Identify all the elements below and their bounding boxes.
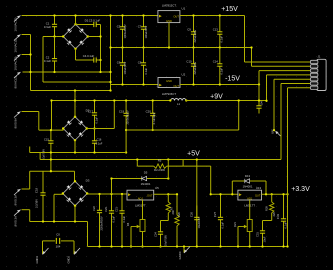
node: [125, 151, 127, 153]
r8 to c24: [161, 220, 169, 222]
label D5: [141, 171, 151, 187]
label R20: [265, 206, 277, 217]
gnd bus: [111, 47, 252, 49]
node: [74, 151, 76, 153]
svg-text:LM317T: LM317T: [135, 203, 146, 207]
regulator U4: [127, 190, 154, 200]
bridge rectifier D1: [62, 23, 89, 50]
label C7: [138, 25, 148, 39]
node: [192, 14, 194, 16]
svg-text:R2.2/3W: R2.2/3W: [154, 168, 165, 172]
svg-text:OUT: OUT: [173, 84, 179, 88]
svg-text:10uF/16V: 10uF/16V: [197, 217, 201, 229]
wire: [74, 206, 76, 222]
node: [210, 193, 212, 195]
wire: [30, 170, 75, 172]
svg-text:10uF/16V: 10uF/16V: [164, 235, 168, 247]
label C21: [115, 207, 126, 223]
svg-text:U5: U5: [155, 186, 159, 190]
node: [110, 177, 112, 179]
node: [219, 193, 221, 195]
svg-text:C17: C17: [88, 110, 94, 114]
svg-text:0.1uF: 0.1uF: [219, 35, 223, 42]
node: [121, 46, 123, 48]
svg-text:104: 104: [260, 101, 264, 106]
label C5: [117, 24, 127, 38]
node: [237, 245, 239, 247]
node: [109, 46, 111, 48]
wire: [74, 171, 76, 181]
node: [282, 193, 284, 195]
svg-text:0.1uF: 0.1uF: [122, 215, 126, 222]
wire: [42, 37, 44, 83]
label U2 name: [162, 92, 177, 96]
capacitor C14: [217, 48, 222, 85]
svg-text:C16: C16: [97, 138, 102, 142]
wire: [43, 36, 63, 38]
svg-text:100uF/35V: 100uF/35V: [144, 26, 148, 39]
svg-text:GND1: GND1: [35, 256, 39, 264]
regulator U1: [158, 11, 180, 23]
label C28: [213, 211, 225, 228]
label C15: [43, 138, 50, 160]
capacitor C24: [158, 221, 163, 247]
capacitor C17: [92, 101, 97, 129]
svg-text:OUT: OUT: [147, 193, 153, 197]
node: [258, 83, 260, 85]
label C17: [88, 110, 99, 124]
svg-text:R20: R20: [265, 206, 269, 211]
svg-text:R7: R7: [170, 206, 174, 210]
node: [93, 127, 95, 129]
terminal 9V B: [14, 210, 21, 216]
svg-text:220uF/25V: 220uF/25V: [193, 62, 197, 75]
node: [50, 158, 52, 160]
capacitor C23: [109, 194, 114, 247]
svg-text:10uF: 10uF: [263, 236, 267, 242]
wire mini: [43, 241, 75, 254]
node: [109, 14, 111, 16]
svg-text:16V/AC(3): 16V/AC(3): [14, 56, 18, 70]
svg-text:2200uF/16V: 2200uF/16V: [100, 216, 104, 230]
-15V rail: [180, 84, 259, 86]
+5V drop: [167, 160, 169, 179]
node: [219, 245, 221, 247]
pot R6: [131, 220, 145, 247]
bridge rectifier D3: [62, 180, 89, 207]
svg-text:+3.3V: +3.3V: [291, 186, 310, 193]
node: [125, 99, 127, 101]
node: [271, 193, 273, 195]
wire: [43, 81, 111, 83]
svg-text:LM7815CT: LM7815CT: [162, 3, 177, 7]
svg-text:C3 0.1uF: C3 0.1uF: [89, 19, 101, 23]
wire: [74, 91, 76, 117]
svg-text:C15: C15: [44, 138, 50, 142]
inductor L1: [169, 99, 187, 102]
capacitor C4: [76, 57, 101, 62]
node: [99, 71, 101, 73]
svg-text:0.1uF: 0.1uF: [44, 25, 51, 29]
node: [152, 99, 154, 101]
node: [167, 193, 169, 195]
svg-text:0.1uF: 0.1uF: [144, 67, 148, 74]
node: [121, 245, 123, 247]
capacitor C0: [56, 238, 59, 244]
node: [231, 193, 233, 195]
node: [98, 245, 100, 247]
svg-text:LM7915CT: LM7915CT: [162, 92, 177, 96]
label C33: [276, 213, 288, 228]
label 16VAC B: [14, 56, 18, 70]
svg-text:100uF/35V: 100uF/35V: [123, 62, 127, 75]
R20 resistor: [270, 194, 274, 220]
node: [142, 14, 144, 16]
svg-text:2.2/16V: 2.2/16V: [35, 199, 39, 208]
5v line B: [40, 153, 281, 160]
label out B: [67, 256, 71, 264]
svg-text:C20: C20: [146, 110, 152, 114]
capacitor C18: [40, 171, 45, 221]
node: [142, 46, 144, 48]
node: [142, 83, 144, 85]
wire pin5: [274, 79, 310, 130]
svg-text:ADJ: ADJ: [247, 196, 253, 200]
wire: [87, 222, 89, 247]
svg-text:9V/0.8A: 9V/0.8A: [14, 118, 18, 129]
node: [125, 129, 127, 131]
wire: [88, 36, 101, 38]
capacitor C2: [52, 37, 57, 73]
svg-text:L1: L1: [177, 102, 181, 106]
wire: [196, 160, 198, 247]
svg-text:0.1uF: 0.1uF: [221, 221, 225, 228]
wire: [110, 16, 112, 91]
adj loop U6: [263, 220, 272, 222]
label U6 pins: [239, 193, 261, 200]
capacitor C20: [150, 101, 155, 131]
wire: [22, 54, 31, 56]
svg-text:220: 220: [177, 212, 181, 217]
label U6 name: [244, 204, 255, 208]
label C8: [138, 61, 148, 75]
node: [50, 170, 52, 172]
wire adj: [142, 200, 144, 220]
node: [167, 177, 169, 179]
svg-text:+15V: +15V: [221, 6, 238, 13]
regulator U2: [158, 78, 180, 88]
label out A: [35, 256, 39, 264]
node: [50, 99, 52, 101]
capacitor C33: [281, 194, 286, 246]
diode D5: [112, 176, 169, 194]
label R21: [233, 222, 237, 227]
node: [121, 193, 123, 195]
label C19: [119, 110, 130, 125]
wire: [100, 25, 102, 73]
node: [192, 83, 194, 85]
svg-text:9V/0.3A: 9V/0.3A: [14, 195, 18, 206]
svg-text:C5: C5: [117, 25, 121, 29]
node: [265, 193, 267, 195]
svg-text:3V8: 3V8: [271, 129, 275, 134]
node: [167, 158, 169, 160]
svg-text:GND: GND: [166, 19, 172, 23]
label R6: [126, 222, 130, 226]
node: [273, 129, 275, 131]
node: [93, 151, 95, 153]
svg-text:C21: C21: [115, 207, 119, 212]
node: [121, 83, 123, 85]
label R5: [154, 159, 165, 173]
node: [219, 83, 221, 85]
svg-text:0.1uF: 0.1uF: [284, 221, 288, 228]
svg-text:9V/AC(2): 9V/AC(2): [14, 76, 18, 88]
9v return line: [126, 101, 239, 131]
diode D13: [232, 179, 266, 195]
wire pin3: [259, 71, 310, 85]
capacitor C13: [217, 16, 222, 48]
svg-text:C23: C23: [104, 207, 108, 212]
node: [53, 220, 55, 222]
svg-text:16V/AC(1): 16V/AC(1): [14, 38, 18, 52]
wire: [22, 210, 88, 222]
label U6 ref: [256, 186, 262, 190]
node: [42, 220, 44, 222]
label pin5 port: [271, 129, 275, 134]
bottom gnd bus: [88, 246, 288, 248]
capacitor C21: [119, 194, 124, 247]
svg-text:10uF/16V: 10uF/16V: [43, 149, 46, 160]
node: [98, 193, 100, 195]
u6 in line: [211, 193, 238, 195]
wire: [51, 101, 53, 131]
regulator U6: [238, 190, 262, 200]
svg-text:0.1uF: 0.1uF: [219, 67, 223, 74]
svg-text:C26: C26: [189, 211, 193, 217]
svg-text:1N4001: 1N4001: [243, 185, 253, 189]
svg-text:0.1uF: 0.1uF: [96, 142, 103, 146]
node: [74, 99, 76, 101]
node: [29, 71, 31, 73]
svg-text:GND: GND: [166, 79, 172, 83]
wire adj U6: [249, 200, 251, 220]
node: [109, 89, 111, 91]
wire U2 in: [111, 84, 159, 86]
node: [152, 129, 154, 131]
svg-text:R21: R21: [233, 222, 237, 227]
node: [109, 71, 111, 73]
node: [196, 245, 198, 247]
connector J1: [310, 59, 326, 90]
node: [99, 35, 101, 37]
label C27: [189, 211, 201, 228]
svg-text:0.1uF: 0.1uF: [44, 59, 51, 63]
capacitor C1: [52, 16, 57, 37]
label C24: [154, 232, 168, 247]
node: [219, 14, 221, 16]
bridge rectifier D2: [62, 116, 88, 142]
R7 resistor: [175, 194, 179, 246]
svg-text:C27: C27: [213, 211, 217, 217]
svg-text:C0: C0: [56, 233, 60, 237]
label C23: [104, 207, 115, 223]
label U4 pins: [128, 193, 153, 200]
label C9: [187, 28, 197, 43]
label U1 pins: [159, 15, 179, 23]
wire: [22, 35, 31, 91]
node: [50, 129, 52, 131]
svg-text:C33: C33: [276, 213, 280, 219]
label C10: [186, 60, 197, 75]
terminal 9V AC B: [14, 112, 21, 118]
+15V rail: [180, 15, 245, 17]
terminal 9V AC A: [14, 72, 21, 78]
svg-text:C10: C10: [186, 60, 192, 64]
capacitor C7: [141, 16, 146, 48]
node: [219, 46, 221, 48]
label gnd port: [178, 251, 182, 259]
node: [250, 46, 252, 48]
svg-text:1000uF/35V: 1000uF/35V: [123, 24, 127, 38]
svg-text:+9V: +9V: [210, 93, 223, 100]
node: [53, 71, 55, 73]
node: [53, 35, 55, 37]
capacitor C19: [124, 101, 129, 153]
wire T4: [23, 71, 111, 73]
node: [136, 158, 138, 160]
svg-text:U1: U1: [182, 7, 186, 11]
out line: [154, 193, 177, 195]
svg-text:-15V: -15V: [225, 76, 240, 83]
node: [159, 245, 161, 247]
svg-text:C6: C6: [117, 61, 121, 65]
wire pin6: [281, 84, 310, 160]
gnd port: [184, 247, 190, 254]
pot R21: [238, 220, 252, 247]
in line: [87, 193, 127, 195]
svg-text:220uF/25V: 220uF/25V: [193, 30, 197, 43]
wire: [54, 194, 63, 221]
label C2: [44, 56, 51, 64]
svg-text:C8: C8: [138, 61, 142, 65]
svg-text:0.1uF: 0.1uF: [111, 215, 115, 222]
wire: [22, 15, 158, 17]
label D1: [85, 19, 89, 23]
label U1 name: [162, 3, 177, 7]
svg-text:OUT: OUT: [173, 15, 179, 19]
label C13: [213, 28, 224, 43]
svg-text:R5: R5: [158, 159, 162, 163]
label C4: [83, 54, 95, 58]
node: [109, 81, 111, 83]
svg-text:C31: C31: [256, 232, 260, 237]
label C1: [44, 22, 51, 30]
svg-text:104: 104: [56, 245, 61, 249]
node: [74, 14, 76, 16]
terminal out A: [43, 248, 49, 255]
node: [196, 158, 198, 160]
wire: [22, 112, 64, 131]
label U2 pins: [159, 79, 179, 88]
svg-text:C24: C24: [154, 232, 158, 237]
label 16VAC A: [14, 17, 18, 31]
svg-text:D13: D13: [245, 174, 251, 178]
node: [74, 89, 76, 91]
label C22: [92, 206, 104, 231]
label C20: [146, 110, 157, 125]
R5 resistor: [137, 160, 183, 169]
svg-text:C22: C22: [92, 206, 96, 211]
terminal 16V AC B: [14, 55, 21, 61]
svg-text:C18: C18: [35, 187, 39, 193]
node: [99, 59, 101, 61]
node: [29, 53, 31, 55]
node: [265, 100, 267, 102]
node: [121, 14, 123, 16]
svg-text:0.1uF: 0.1uF: [95, 116, 99, 123]
node: [130, 245, 132, 247]
label C18m: [96, 138, 103, 146]
mid gnd bus: [30, 140, 126, 152]
svg-text:C7: C7: [138, 25, 142, 29]
label 9VAC B: [14, 118, 18, 129]
capacitor C22: [97, 194, 102, 247]
node: [110, 193, 112, 195]
wire 9V line: [52, 100, 172, 102]
svg-text:J1: J1: [318, 55, 321, 59]
node: [286, 193, 288, 195]
label U4 ref: [155, 186, 159, 190]
out line 3v3: [262, 193, 288, 195]
node: [50, 151, 52, 153]
capacitor C18m: [92, 129, 97, 153]
svg-text:C19: C19: [119, 110, 125, 114]
node: [113, 99, 115, 101]
capacitor C5: [120, 16, 125, 48]
label R8: [171, 210, 175, 215]
wire: [22, 171, 30, 189]
svg-text:2200uF/16V: 2200uF/16V: [126, 110, 130, 124]
node: [176, 193, 178, 195]
wire pin4: [267, 75, 311, 101]
capacitor C9: [191, 16, 196, 48]
svg-text:D5: D5: [144, 171, 148, 175]
label Cb: [260, 101, 264, 106]
label C31: [256, 232, 267, 243]
label U2 ref: [182, 73, 186, 77]
label D2: [86, 109, 90, 113]
svg-text:U13: U13: [256, 186, 262, 190]
label L1: [177, 102, 181, 106]
svg-text:+5V: +5V: [187, 151, 200, 158]
label C3: [89, 19, 101, 23]
svg-text:U2: U2: [182, 73, 186, 77]
label +5V: [187, 151, 200, 158]
capacitor C27: [194, 206, 199, 247]
node: [261, 245, 263, 247]
node: [141, 245, 143, 247]
capacitor C8: [141, 48, 146, 85]
terminal 9V A: [14, 189, 21, 195]
label 16VAC CT: [14, 38, 18, 52]
terminal 16V AC A: [14, 16, 21, 22]
node: [249, 245, 251, 247]
+9V rail: [186, 100, 267, 102]
terminal out B: [74, 248, 80, 255]
label +15V: [221, 6, 238, 13]
node: [93, 99, 95, 101]
